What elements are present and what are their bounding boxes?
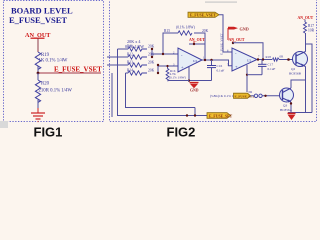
wire feedback loop U1 [163,33,178,54]
svg-text:R15: R15 [164,29,170,33]
yellow net label 3 [207,113,233,119]
svg-text:C17: C17 [268,63,274,67]
junction dots left [151,48,153,50]
wire to Q2 base [279,59,296,61]
wire row1 left [118,48,129,50]
resistor R20 [35,80,40,102]
svg-text:(0.1% 1/8W): (0.1% 1/8W) [176,26,196,30]
svg-text:U2: U2 [193,59,197,63]
svg-text:AN_OUT: AN_OUT [229,38,245,42]
wire row2 join [151,54,153,57]
wire corner drop [194,108,196,116]
op-amp U2 [232,48,257,71]
wire to op-amp plus input [158,65,178,66]
svg-text:E_FUSE_VSET: E_FUSE_VSET [220,33,224,55]
svg-text:0.1uF: 0.1uF [217,69,225,73]
power arrow down (bottom right) [288,112,296,114]
wire branch to right rail [306,44,313,113]
resistor R15 feedback [178,31,192,35]
resistor R11 [128,47,147,51]
FIG2 dashed frame [110,0,317,122]
resistor R19 [35,52,41,69]
svg-text:E_FUSE_SET: E_FUSE_SET [209,115,233,119]
top center faint line [205,2,237,3]
svg-text:1K 0.1% 1/4W: 1K 0.1% 1/4W [39,59,68,64]
svg-text:BOARD LEVEL: BOARD LEVEL [11,6,73,16]
resistor R17 [304,22,307,33]
wire output row U1 to U2 plus input [202,60,232,66]
wire Q3 emitter down [290,102,292,113]
svg-text:E_FUSE_SET: E_FUSE_SET [235,94,256,98]
jumper circles [254,94,257,97]
wire R16 bottom to gnd stub [168,80,190,82]
svg-text:210R 0.1% 1/4W: 210R 0.1% 1/4W [39,89,73,94]
resistor R16 (vertical, input bias to gnd) [167,66,169,69]
FIG1 dashed frame [4,1,104,122]
wire R17 to Q2 [305,33,307,52]
resistor R18 [273,58,280,61]
svg-text:GND: GND [240,27,249,32]
svg-text:R19: R19 [41,53,50,58]
svg-text:C16: C16 [217,64,223,68]
power GND U1 (down arrow) [190,82,199,84]
wire stub left [111,73,113,117]
svg-text:GND: GND [190,89,199,93]
svg-text:R14: R14 [127,69,133,73]
wire Q3 collector up [291,80,306,88]
junction dots bottom bus [186,114,188,116]
capacitor C16 [211,60,213,66]
svg-text:E_FUSE_VSET: E_FUSE_VSET [190,13,216,17]
wire to op-amp minus input [152,49,178,54]
transistor Q2 [293,52,308,68]
svg-text:R11: R11 [127,45,133,49]
yellow net label 1 (top) [188,12,219,17]
wire bottom bus right [288,112,312,114]
svg-text:20K: 20K [202,29,209,33]
capacitor C17 [261,60,263,65]
svg-text:R12: R12 [127,53,133,57]
svg-text:20K: 20K [148,61,155,65]
pin stubs U2 [246,65,248,92]
wire bus lower [118,49,208,116]
wire from label1 [219,15,232,52]
wire row4 left [126,72,129,74]
wire [37,66,39,73]
wire row2 left [107,56,128,58]
wire [37,100,39,108]
junction output U1 [204,59,206,61]
wire bus upper [126,73,196,108]
resistor R12 [128,55,147,59]
svg-text:AN_OUT: AN_OUT [298,16,314,20]
svg-text:FIG1: FIG1 [34,125,63,140]
svg-text:U2: U2 [247,59,251,63]
svg-text:10R: 10R [308,29,315,33]
yellow net label 2 [234,93,256,98]
power port GND arrow (top) [227,28,229,40]
svg-text:20K: 20K [148,45,155,49]
op-amp U1 [178,48,202,72]
svg-text:0.1uF: 0.1uF [268,67,276,71]
wire [37,73,39,80]
wire bottom row [251,95,255,97]
pin stub down U1 [188,67,190,82]
svg-text:AN_OUT: AN_OUT [189,38,205,42]
svg-text:R18: R18 [266,55,272,59]
wire Q2 emitter down [305,67,307,113]
svg-text:R20: R20 [41,82,50,87]
svg-text:FIG2: FIG2 [167,125,196,140]
svg-text:R17: R17 [308,24,314,28]
transistor Q3 [280,88,294,103]
wire row4 join [157,66,159,73]
svg-text:E_FUSE_VSET: E_FUSE_VSET [9,15,67,25]
resistor R13 [128,63,147,67]
wire row3 left [107,64,128,66]
wire output U2 [257,59,272,61]
svg-text:BC856B: BC856B [289,71,302,75]
svg-text:E_FUSE_VSET: E_FUSE_VSET [54,66,102,74]
svg-text:R13: R13 [127,61,133,65]
ground [31,113,45,122]
resistor R14 [128,71,147,75]
wire feedback loop U2 [233,43,263,60]
svg-text:(0.1% 1/8W): (0.1% 1/8W) [169,76,186,80]
svg-text:20K: 20K [148,69,155,73]
